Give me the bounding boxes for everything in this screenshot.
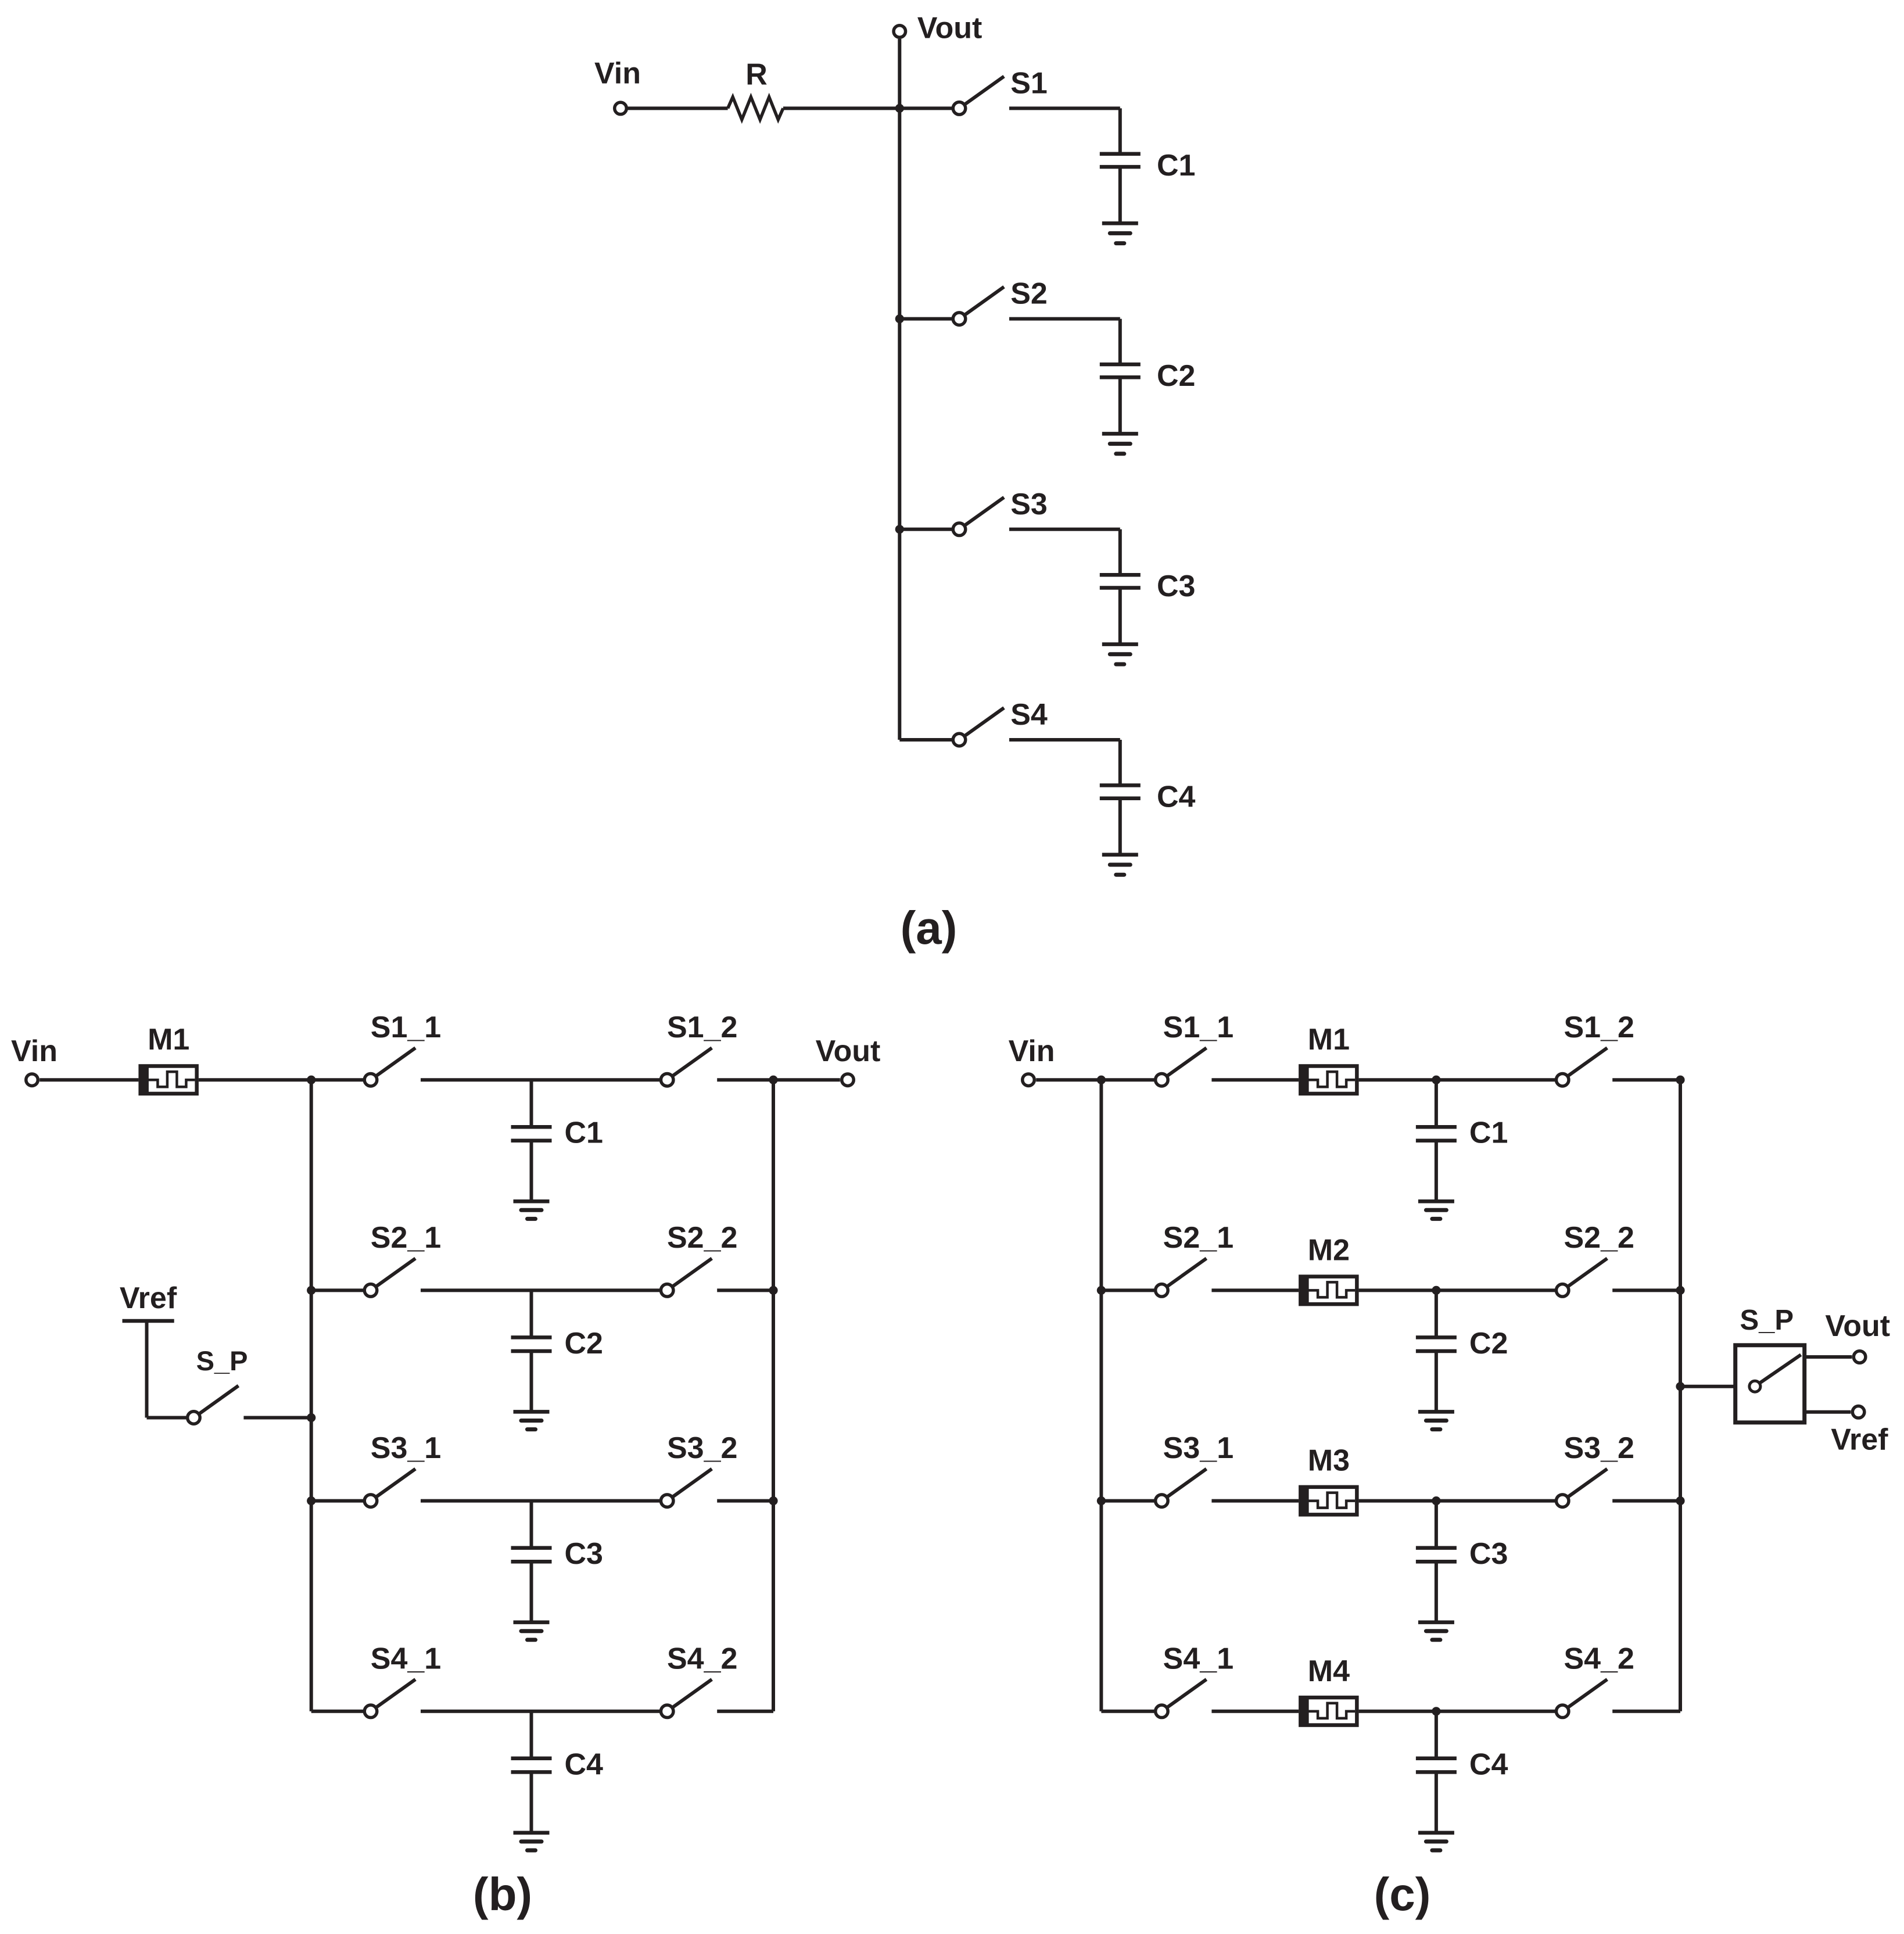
svg-text:S3_1: S3_1: [1163, 1431, 1234, 1465]
wire vertical bus (a): [898, 108, 901, 740]
terminal Vin (b): [26, 1074, 38, 1086]
node right bus (c) row 1: [1676, 1076, 1684, 1084]
wire left bus (b): [310, 1080, 313, 1711]
switch S3_2 (c): [1556, 1469, 1607, 1507]
switch S4_2 (c): [1556, 1679, 1607, 1718]
svg-text:Vref: Vref: [120, 1281, 177, 1315]
capacitor C2 (c): [1416, 1290, 1457, 1351]
wire switch S1 to capacitor C1: [1009, 106, 1120, 110]
svg-text:C3: C3: [1469, 1537, 1508, 1571]
node left bus (c) row 1: [1097, 1076, 1106, 1084]
svg-text:S_P: S_P: [1740, 1305, 1794, 1336]
svg-text:Vin: Vin: [1009, 1034, 1055, 1068]
switch S4_1 (b): [364, 1679, 415, 1718]
svg-text:C1: C1: [1157, 149, 1195, 182]
svg-text:Vout: Vout: [917, 11, 983, 45]
wire memristor M3 to switch S3_2 (c): [1359, 1499, 1555, 1503]
capacitor C1: [1100, 108, 1141, 167]
switch S1: [953, 76, 1004, 114]
switch S2_1 (c): [1156, 1258, 1207, 1297]
wire S_P box to Vref (c): [1805, 1410, 1851, 1414]
node right bus (b) row 3: [769, 1496, 777, 1505]
ground below C3 (c): [1418, 1561, 1454, 1640]
wire switch S4_2 to right bus (b): [717, 1710, 773, 1713]
wire right bus (c): [1679, 1080, 1682, 1711]
power rail Vref (b): [123, 1319, 174, 1323]
switch S2_1 (b): [364, 1258, 415, 1297]
node left bus (b) row 1: [307, 1076, 315, 1084]
svg-text:(b): (b): [473, 1868, 532, 1920]
memristor M3 (c): [1300, 1487, 1357, 1515]
svg-text:Vin: Vin: [594, 57, 641, 91]
svg-text:S3: S3: [1010, 488, 1048, 521]
wire Vout stub: [898, 39, 901, 108]
capacitor C2: [1100, 319, 1141, 378]
wire memristor M2 to switch S2_2 (c): [1359, 1288, 1555, 1292]
terminal Vout (b): [842, 1074, 854, 1086]
node left bus (c) row 2: [1097, 1286, 1106, 1295]
svg-text:S3_1: S3_1: [371, 1431, 441, 1465]
switch S3_1 (b): [364, 1469, 415, 1507]
wire Vref to switch S_P (b): [147, 1416, 187, 1420]
terminal Vout (c): [1853, 1351, 1866, 1363]
wire bus to switch S4: [899, 738, 952, 742]
svg-text:M3: M3: [1308, 1444, 1350, 1478]
terminal Vin (c): [1023, 1074, 1035, 1086]
node capacitor junction (c) row 3: [1432, 1496, 1440, 1505]
svg-text:C2: C2: [565, 1327, 603, 1360]
svg-text:S1: S1: [1010, 66, 1048, 100]
wire switch S1_1 to switch S1_2 (b): [421, 1078, 659, 1081]
wire switch S3 to capacitor C3: [1009, 528, 1120, 531]
wire memristor M1 to left bus (b): [199, 1078, 311, 1081]
circuit (a): R-C network with selector switches: [594, 11, 1196, 954]
svg-text:C3: C3: [1157, 570, 1195, 603]
svg-text:M1: M1: [148, 1023, 189, 1056]
node left bus (b) row 2: [307, 1286, 315, 1295]
svg-text:S2_1: S2_1: [371, 1221, 441, 1255]
wire switch S2_1 to switch S2_2 (b): [421, 1288, 659, 1292]
ground below C2 (b): [514, 1351, 550, 1430]
svg-text:S1_2: S1_2: [667, 1011, 737, 1044]
wire memristor M1 to switch S1_2 (c): [1359, 1078, 1555, 1081]
wire switch S2_1 to memristor M2 (c): [1211, 1288, 1299, 1292]
wire switch S2_2 to right bus (c): [1612, 1288, 1680, 1292]
wire switch S3_2 to right bus (c): [1612, 1499, 1680, 1503]
ground below C2 (c): [1418, 1351, 1454, 1430]
wire Vin to resistor R: [628, 106, 728, 110]
ground below C1 (b): [514, 1141, 550, 1219]
wire bus to switch S3_1 (c): [1101, 1499, 1154, 1503]
switch S_P pole (c): [1749, 1355, 1801, 1392]
ground below C4 (b): [514, 1772, 550, 1850]
svg-text:S1_1: S1_1: [1163, 1011, 1234, 1044]
wire S_P box to Vout (c): [1805, 1355, 1852, 1359]
capacitor C4 (b): [511, 1711, 552, 1772]
switch S3_2 (b): [661, 1469, 712, 1507]
wire switch S3_1 to switch S3_2 (b): [421, 1499, 659, 1503]
ground below C1 (c): [1418, 1141, 1454, 1219]
wire Vin to switch S1_1 (c): [1036, 1078, 1154, 1081]
wire switch S2 to capacitor C2: [1009, 317, 1120, 321]
node junction (a) row 1: [895, 104, 904, 113]
node left bus (b) row 3: [307, 1496, 315, 1505]
memristor M1 (c): [1300, 1066, 1357, 1094]
switch S2_2 (b): [661, 1258, 712, 1297]
node left bus (c) row 3: [1097, 1496, 1106, 1505]
wire bus to switch S4_1 (b): [311, 1710, 363, 1713]
wire right bus to S_P box (c): [1680, 1385, 1735, 1388]
wire right bus to Vout (b): [773, 1078, 840, 1081]
ground below C2: [1102, 377, 1138, 454]
node capacitor junction (c) row 2: [1432, 1286, 1440, 1295]
wire switch S1_2 to right bus (c): [1612, 1078, 1680, 1081]
svg-text:M1: M1: [1308, 1023, 1350, 1056]
switch S1_2 (c): [1556, 1048, 1607, 1086]
wire switch S4_1 to memristor M4 (c): [1211, 1710, 1299, 1713]
switch S3: [953, 497, 1004, 536]
svg-text:S_P: S_P: [196, 1345, 248, 1376]
node capacitor junction (c) row 1: [1432, 1076, 1440, 1084]
capacitor C3: [1100, 529, 1141, 588]
node junction (a) row 4: [0, 0, 1, 1]
wire bus to switch S1_1 (b): [311, 1078, 363, 1081]
svg-text:S2_1: S2_1: [1163, 1221, 1234, 1255]
node right bus (b) row 4: [0, 0, 1, 1]
ground below C3 (b): [514, 1561, 550, 1640]
wire bus to switch S3_1 (b): [311, 1499, 363, 1503]
svg-text:S2: S2: [1010, 277, 1048, 311]
wire switch S3_1 to memristor M3 (c): [1211, 1499, 1299, 1503]
svg-text:Vout: Vout: [816, 1034, 881, 1068]
switch S4: [953, 708, 1004, 746]
wire bus to switch S2_1 (b): [311, 1288, 363, 1292]
resistor R: [728, 97, 783, 120]
svg-text:S1_1: S1_1: [371, 1011, 441, 1044]
node junction (a) row 2: [895, 314, 904, 323]
capacitor C4: [1100, 740, 1141, 798]
capacitor C4 (c): [1416, 1711, 1457, 1772]
node right bus (b) row 2: [769, 1286, 777, 1295]
switch S3_1 (c): [1156, 1469, 1207, 1507]
node left bus (c) row 4: [0, 0, 1, 1]
capacitor C1 (c): [1416, 1080, 1457, 1141]
circuit (b): memristor M1 with switched capacitor bank: [11, 1011, 880, 1920]
wire left bus (c): [1099, 1080, 1103, 1711]
ground below C4 (c): [1418, 1772, 1454, 1850]
svg-text:C2: C2: [1157, 359, 1195, 393]
node S_P junction on right bus (c): [1676, 1382, 1684, 1391]
wire memristor M4 to switch S4_2 (c): [1359, 1710, 1555, 1713]
svg-text:Vout: Vout: [1825, 1309, 1890, 1343]
svg-text:C3: C3: [565, 1537, 603, 1571]
svg-text:S2_2: S2_2: [667, 1221, 737, 1255]
svg-text:C4: C4: [1469, 1747, 1508, 1781]
memristor M1 (b): [140, 1066, 196, 1094]
ground below C4: [1102, 798, 1138, 875]
wire bus to switch S3: [899, 528, 952, 531]
wire resistor R to node A: [783, 106, 899, 110]
svg-text:S1_2: S1_2: [1564, 1011, 1634, 1044]
svg-text:S3_2: S3_2: [667, 1431, 737, 1465]
node right bus (b) row 1: [769, 1076, 777, 1084]
capacitor C3 (c): [1416, 1501, 1457, 1562]
svg-text:M2: M2: [1308, 1233, 1350, 1267]
svg-text:S4: S4: [1010, 698, 1048, 732]
switch S1_2 (b): [661, 1048, 712, 1086]
capacitor C2 (b): [511, 1290, 552, 1351]
wire switch S1_2 to right bus (b): [717, 1078, 773, 1081]
svg-text:Vin: Vin: [11, 1034, 58, 1068]
switch S1_1 (c): [1156, 1048, 1207, 1086]
capacitor C1 (b): [511, 1080, 552, 1141]
svg-text:S3_2: S3_2: [1564, 1431, 1634, 1465]
wire right bus (b): [772, 1080, 775, 1711]
node right bus (c) row 4: [0, 0, 1, 1]
svg-text:S2_2: S2_2: [1564, 1221, 1634, 1255]
ground below C1: [1102, 167, 1138, 243]
switch S4_1 (c): [1156, 1679, 1207, 1718]
svg-text:M4: M4: [1308, 1654, 1350, 1688]
wire switch S2_2 to right bus (b): [717, 1288, 773, 1292]
svg-text:C2: C2: [1469, 1327, 1508, 1360]
ground below C3: [1102, 588, 1138, 665]
switch S1_1 (b): [364, 1048, 415, 1086]
node junction (a) row 3: [895, 525, 904, 533]
terminal Vin (a): [615, 102, 627, 114]
wire switch S4_1 to switch S4_2 (b): [421, 1710, 659, 1713]
wire switch S4 to capacitor C4: [1009, 738, 1120, 742]
node right bus (c) row 2: [1676, 1286, 1684, 1295]
switch S2: [953, 287, 1004, 325]
terminal Vout (a): [894, 26, 906, 38]
node left bus (b) row 4: [0, 0, 1, 1]
wire bus to switch S1: [899, 106, 952, 110]
svg-text:S4_1: S4_1: [371, 1642, 441, 1675]
capacitor C3 (b): [511, 1501, 552, 1562]
svg-text:C1: C1: [1469, 1116, 1508, 1150]
svg-text:R: R: [745, 58, 768, 92]
memristor M4 (c): [1300, 1697, 1357, 1725]
svg-text:Vref: Vref: [1831, 1423, 1888, 1457]
wire switch S1_1 to memristor M1 (c): [1211, 1078, 1299, 1081]
node capacitor junction (c) row 4: [1432, 1707, 1440, 1715]
svg-text:S4_1: S4_1: [1163, 1642, 1234, 1675]
terminal Vref (c): [1852, 1406, 1864, 1419]
memristor M2 (c): [1300, 1276, 1357, 1304]
wire bus to switch S2_1 (c): [1101, 1288, 1154, 1292]
svg-text:C4: C4: [565, 1747, 604, 1781]
svg-text:S4_2: S4_2: [667, 1642, 737, 1675]
wire switch S_P to left bus (b): [243, 1416, 311, 1420]
circuit (c): per-row memristors with switched capacitors and S_P selector: [1009, 1011, 1890, 1920]
svg-text:C1: C1: [565, 1116, 603, 1150]
svg-text:(a): (a): [901, 902, 958, 954]
wire switch S4_2 to right bus (c): [1612, 1710, 1680, 1713]
wire Vin to memristor M1 (b): [40, 1078, 138, 1081]
svg-text:S4_2: S4_2: [1564, 1642, 1634, 1675]
wire bus to switch S4_1 (c): [1101, 1710, 1154, 1713]
switch S_P (b): [188, 1386, 239, 1424]
switch S2_2 (c): [1556, 1258, 1607, 1297]
node right bus (c) row 3: [1676, 1496, 1684, 1505]
S_P selector box (c): [1736, 1345, 1805, 1423]
wire Vref down: [145, 1321, 149, 1418]
wire bus to switch S2: [899, 317, 952, 321]
wire switch S3_2 to right bus (b): [717, 1499, 773, 1503]
node S_P junction on left bus (b): [307, 1413, 315, 1422]
svg-text:(c): (c): [1374, 1868, 1431, 1920]
switch S4_2 (b): [661, 1679, 712, 1718]
svg-text:C4: C4: [1157, 780, 1196, 814]
